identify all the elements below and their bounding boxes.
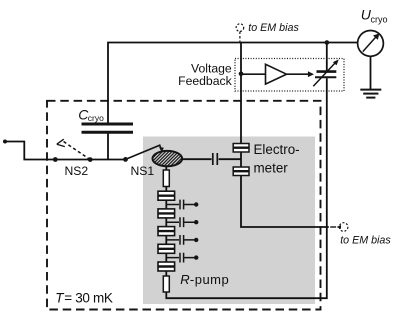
svg-text:Electro-: Electro- <box>254 142 300 157</box>
svg-text:-pump: -pump <box>190 272 229 287</box>
svg-text:cryo: cryo <box>88 113 104 123</box>
svg-text:NS1: NS1 <box>131 164 155 178</box>
svg-text:NS2: NS2 <box>65 164 89 178</box>
svg-text:R: R <box>180 272 190 287</box>
svg-text:cryo: cryo <box>371 14 388 24</box>
svg-text:= 30 mK: = 30 mK <box>64 291 113 306</box>
svg-text:Feedback: Feedback <box>178 74 232 88</box>
svg-text:to EM bias: to EM bias <box>248 22 299 34</box>
svg-text:meter: meter <box>254 161 289 176</box>
svg-text:Voltage: Voltage <box>191 61 232 75</box>
svg-text:to EM bias: to EM bias <box>340 234 391 246</box>
